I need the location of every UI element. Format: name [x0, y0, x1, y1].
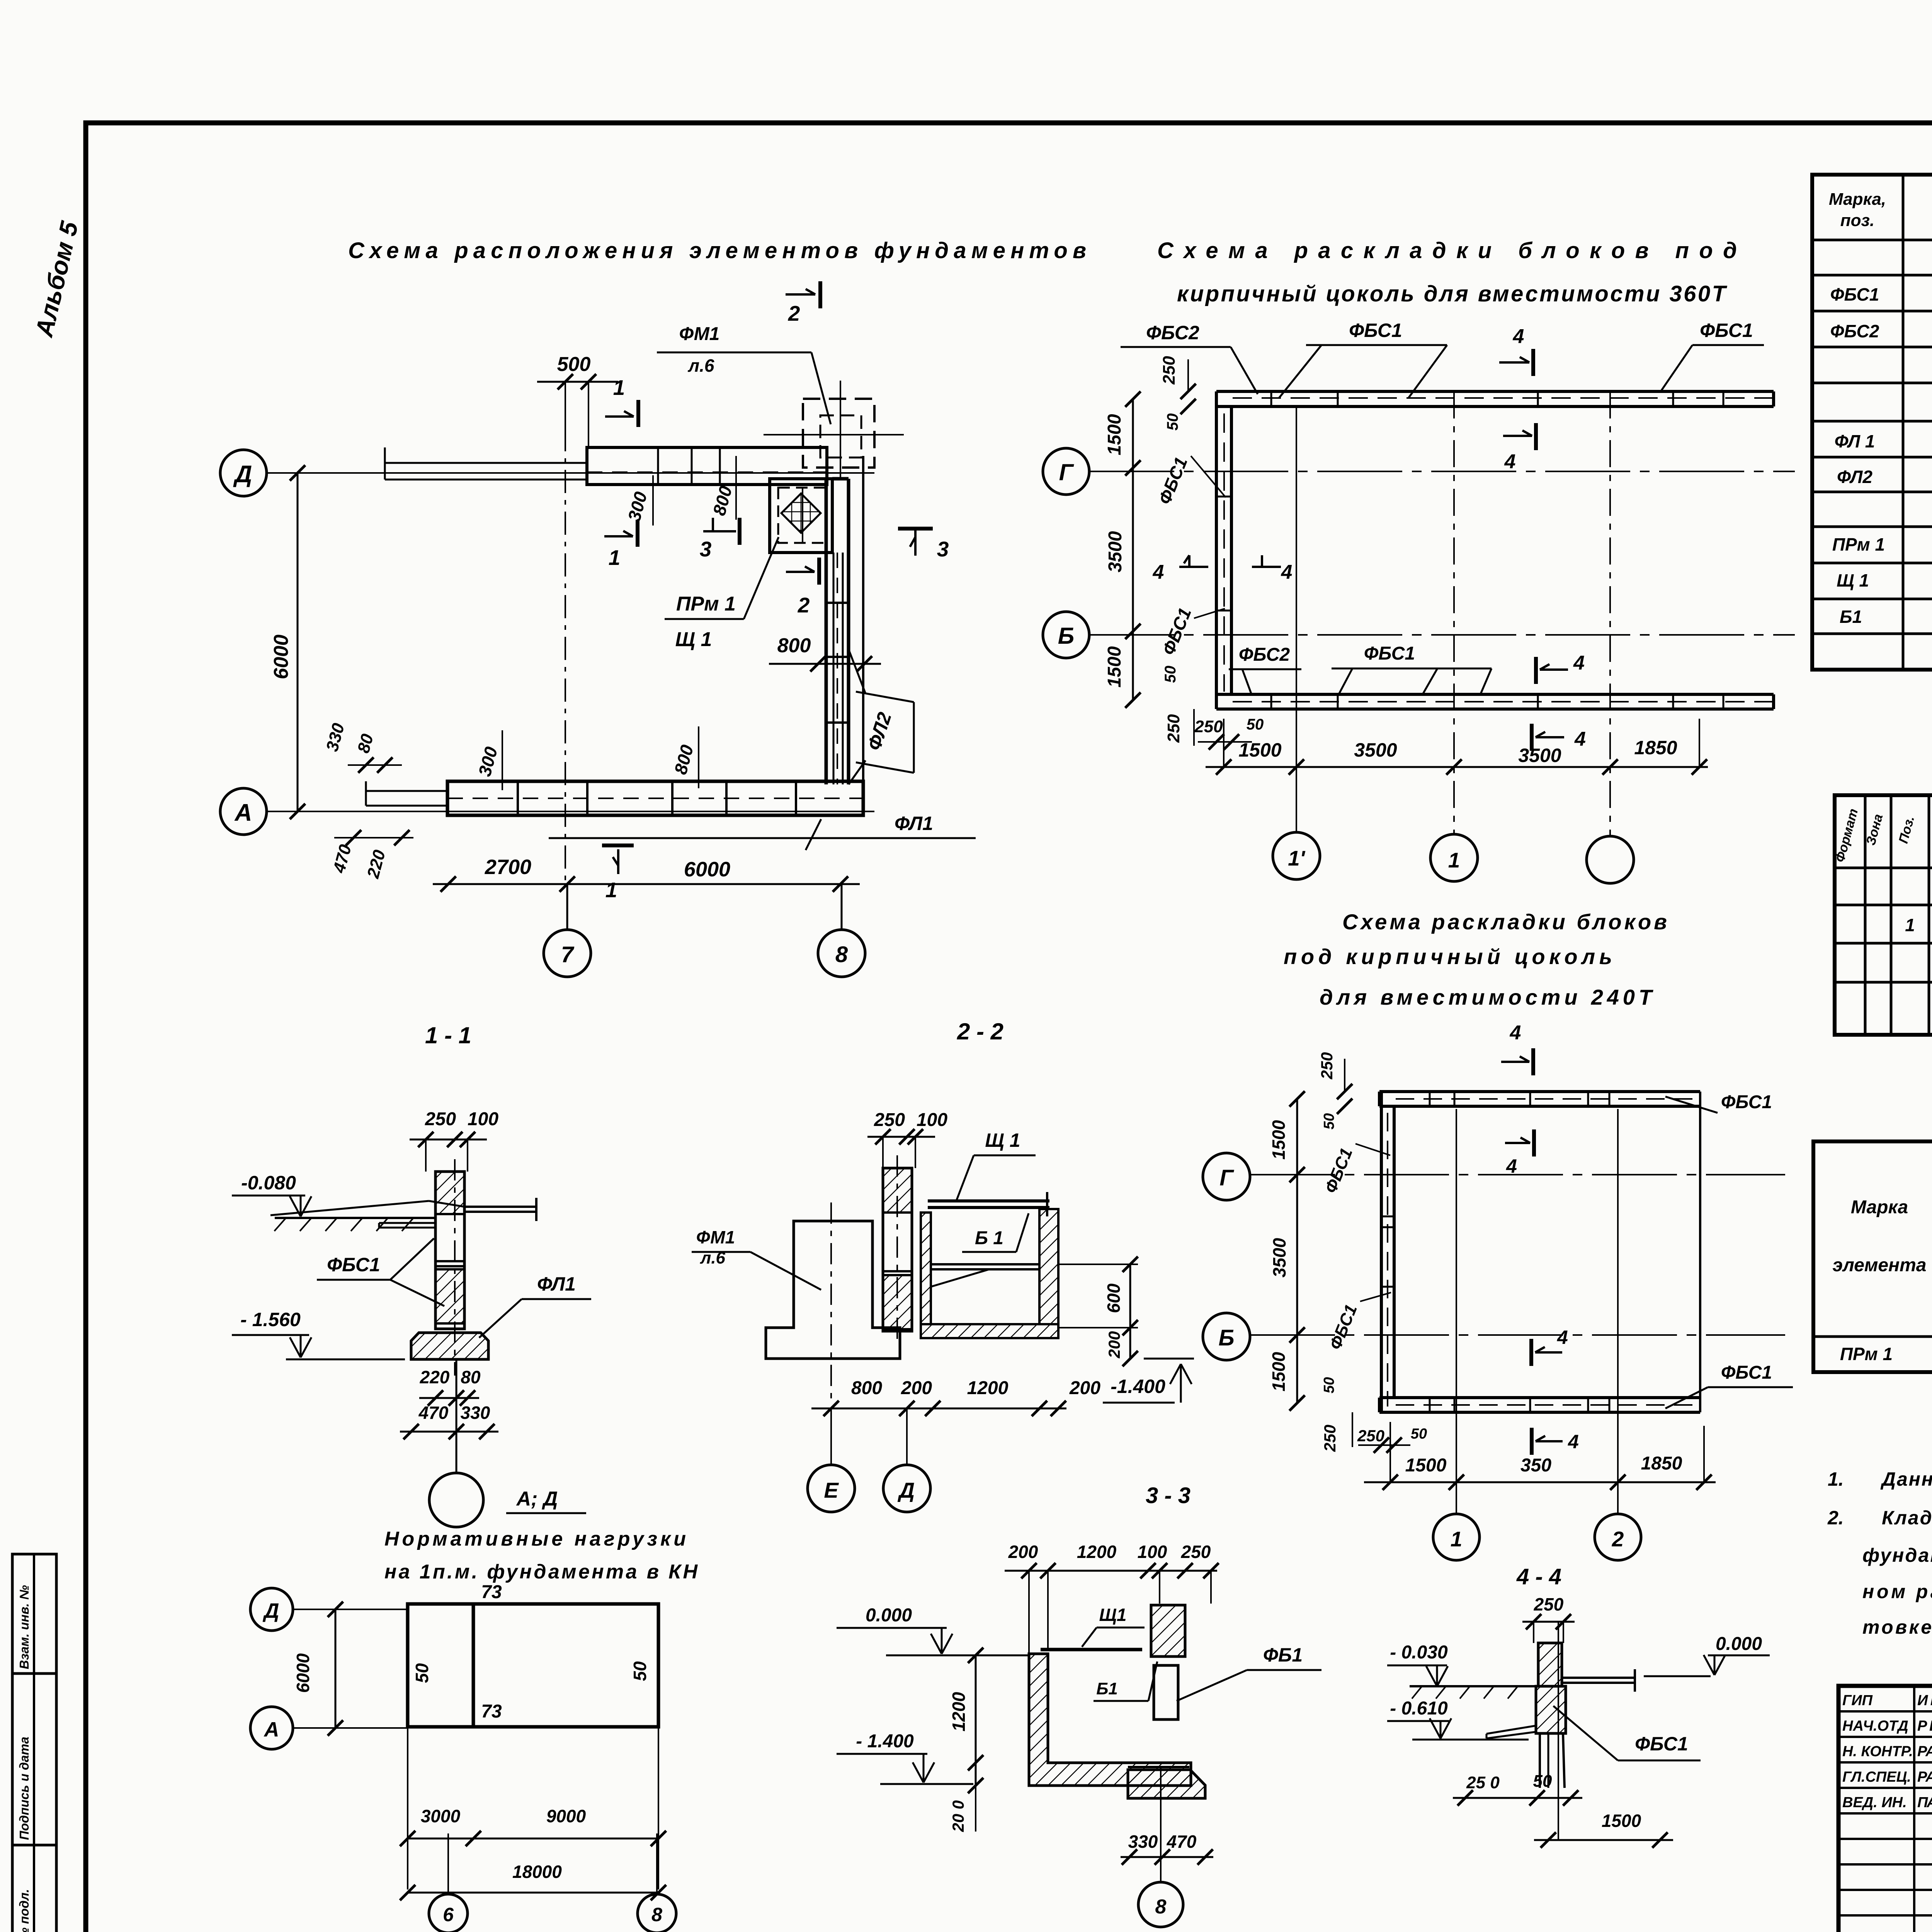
loads diagram rectangle [408, 1604, 658, 1727]
svg-text:6: 6 [443, 1904, 454, 1925]
label Щ1 (section 2-2) [957, 1129, 1036, 1200]
label ФЛ1 with leader line [549, 813, 976, 850]
240 plan top strip [1379, 1092, 1700, 1106]
svg-text:А; Д: А; Д [516, 1488, 558, 1510]
table row Щ1 [1837, 570, 1932, 593]
svg-text:200: 200 [901, 1378, 932, 1398]
svg-text:6000: 6000 [684, 858, 730, 881]
section 4-4 dim 250 [1522, 1594, 1575, 1643]
section marks 4 (inside 360 plan) [1153, 423, 1586, 751]
svg-text:Схема расположения элементов: Схема расположения элементов фундаментов [348, 238, 1086, 263]
left dimension chain (240) [1269, 1091, 1305, 1411]
svg-text:Щ1: Щ1 [1099, 1605, 1126, 1625]
svg-text:73: 73 [481, 1701, 502, 1722]
svg-text:Д: Д [898, 1478, 915, 1502]
svg-text:ном растворе марки М50 по по: ном растворе марки М50 по подго- [1862, 1581, 1932, 1602]
section 1-1 footing ФЛ1 (hatched trapezoid) [411, 1329, 488, 1359]
svg-text:Щ 1: Щ 1 [1837, 570, 1869, 590]
svg-text:50: 50 [1321, 1113, 1337, 1129]
svg-text:3500: 3500 [1105, 531, 1126, 572]
svg-text:50: 50 [412, 1663, 432, 1683]
label ФМ1 л.6 with leader [657, 324, 831, 424]
label ФБС1 rotated (left bottom, 360) [1158, 605, 1225, 658]
svg-text:НАЧ.ОТД: НАЧ.ОТД [1842, 1718, 1908, 1734]
svg-text:80: 80 [461, 1367, 481, 1387]
section 4-4 ground line [1410, 1686, 1537, 1699]
svg-text:-0.080: -0.080 [241, 1172, 296, 1194]
svg-text:1500: 1500 [1269, 1352, 1289, 1391]
centerline of axis 7 (vertical dash-dot) [565, 386, 566, 885]
section 1-1 dims 220 80 [419, 1367, 481, 1406]
label Б1 (section 2-2) [962, 1213, 1029, 1252]
section 4-4 axis line [1558, 1622, 1559, 1840]
svg-text:фундаментов производить на цем: фундаментов производить на цемент- [1862, 1544, 1932, 1566]
svg-text:4: 4 [1568, 1431, 1579, 1452]
section 3-3 plate Щ1 [1041, 1605, 1145, 1650]
section 4-4 dim 1500 [1534, 1811, 1673, 1848]
bottom dimension chain (360): 1500 3500 3500 1850 [1206, 719, 1708, 775]
svg-text:500: 500 [557, 353, 591, 376]
svg-text:3500: 3500 [1518, 745, 1561, 766]
svg-text:3500: 3500 [1354, 739, 1397, 761]
label ПРм 1 with leader [665, 537, 779, 619]
svg-text:ФБС1: ФБС1 [1349, 320, 1402, 341]
svg-text:1 - 1: 1 - 1 [425, 1022, 471, 1048]
label ФБС1 rotated (240 left bottom) [1326, 1293, 1391, 1352]
svg-text:3000: 3000 [421, 1806, 461, 1826]
svg-text:ФБС1: ФБС1 [1721, 1092, 1772, 1112]
svg-text:250: 250 [1534, 1594, 1564, 1614]
svg-text:25 0: 25 0 [1466, 1773, 1500, 1792]
dashed outline ФМ1 (monolithic insert) [764, 381, 904, 480]
label ФБС1 (top middle, 360) [1279, 320, 1447, 398]
svg-text:ФЛ1: ФЛ1 [537, 1273, 576, 1295]
left stamp column [12, 1554, 56, 1932]
svg-text:Схема раскладки блоков: Схема раскладки блоков [1342, 910, 1667, 934]
section 3-3 vertical dim 1200 [949, 1648, 983, 1770]
axis circle unnamed (360) [1587, 391, 1634, 883]
svg-text:ГИП: ГИП [1842, 1692, 1873, 1709]
svg-text:ФБС1: ФБС1 [327, 1254, 380, 1276]
svg-text:- 1.560: - 1.560 [240, 1309, 301, 1330]
label ФБС1 (4-4) [1553, 1706, 1701, 1760]
svg-text:элемента: элемента [1833, 1255, 1927, 1276]
svg-text:1: 1 [609, 546, 621, 570]
svg-text:1500: 1500 [1104, 414, 1125, 455]
svg-text:А: А [264, 1718, 279, 1741]
svg-text:Марка: Марка [1851, 1197, 1908, 1218]
svg-text:Г: Г [1059, 459, 1075, 485]
section 3-3 label Б1 [1094, 1662, 1157, 1701]
table row ФБС2 [1830, 321, 1932, 341]
svg-text:Б1: Б1 [1096, 1679, 1118, 1698]
label ФБС1 (240 bottom right) [1665, 1362, 1793, 1408]
svg-text:50: 50 [1162, 666, 1179, 683]
svg-text:4: 4 [1506, 1155, 1517, 1177]
svg-text:ГЛ.СПЕЦ.: ГЛ.СПЕЦ. [1842, 1769, 1911, 1785]
svg-text:250: 250 [1181, 1542, 1211, 1562]
svg-text:РЫБКИНА: РЫБКИНА [1917, 1718, 1932, 1734]
svg-text:7: 7 [561, 942, 575, 967]
svg-text:ФБС1: ФБС1 [1700, 320, 1753, 341]
svg-text:350: 350 [1520, 1455, 1551, 1476]
loads diagram axis circle 8 [638, 1833, 676, 1932]
svg-text:А: А [234, 799, 252, 826]
svg-text:220: 220 [420, 1367, 450, 1387]
svg-text:4 - 4: 4 - 4 [1516, 1564, 1561, 1589]
svg-text:100: 100 [917, 1110, 947, 1130]
svg-text:1500: 1500 [1104, 646, 1125, 687]
svg-text:1200: 1200 [967, 1378, 1009, 1398]
svg-text:1: 1 [1448, 848, 1460, 872]
svg-text:1: 1 [1905, 915, 1915, 935]
svg-text:- 1.400: - 1.400 [856, 1731, 914, 1752]
axis circle 8 [818, 884, 865, 977]
section mark 1 (top) [605, 376, 638, 427]
embedded items table grid [1813, 1141, 1932, 1372]
svg-text:Щ 1: Щ 1 [985, 1129, 1020, 1151]
specification header texts [1833, 807, 1932, 864]
bottom block strip (360) [1216, 694, 1774, 709]
table header texts [1829, 180, 1932, 232]
svg-text:0.000: 0.000 [1716, 1634, 1762, 1654]
title block signature grid [1838, 1686, 1932, 1932]
section 3-3 dims 330 470 [1121, 1832, 1213, 1865]
rotated dim 800 (top strip) [709, 456, 736, 520]
specification table grid [1835, 795, 1932, 1035]
axis circle А;Д (section 1-1) [429, 1359, 586, 1527]
axis circle Б (360) [1043, 612, 1089, 658]
label ФБС2 (top left, 360) [1121, 322, 1258, 394]
section 3-3 dim 200 lower [949, 1763, 983, 1832]
section mark 3 (right) [898, 529, 949, 561]
svg-text:ФБС2: ФБС2 [1239, 645, 1290, 665]
axis circle 8 (3-3) [1138, 1767, 1183, 1927]
label ФЛ1 (section 1-1) [479, 1273, 591, 1338]
section 4-4 dims 250 50 [1453, 1772, 1582, 1806]
corner pit ПРм1 (hatched square) [770, 479, 832, 553]
note 2: Кладку бетонных блоков [1827, 1507, 1932, 1638]
svg-text:Е: Е [824, 1478, 839, 1502]
spec row 1.400-15 [1905, 915, 1932, 935]
section marks 4 (inside 240 plan) [1505, 1129, 1579, 1455]
small dims 50/250 (240 bottom) [1321, 1377, 1427, 1453]
svg-text:4: 4 [1153, 561, 1164, 583]
top block strip (360) [1216, 391, 1774, 406]
svg-text:4: 4 [1504, 451, 1516, 473]
rotated dim 300 (top strip) [624, 475, 653, 526]
svg-text:50: 50 [1247, 716, 1264, 733]
section mark 1 (bottom) [602, 845, 634, 902]
label ФБС1 (section 1-1) [317, 1238, 444, 1306]
table row ФЛ1 [1835, 431, 1932, 454]
loads diagram vertical dim 6000 [293, 1602, 343, 1736]
svg-text:- 0.030: - 0.030 [1390, 1642, 1448, 1663]
table row ФБС1 [1830, 284, 1932, 304]
svg-text:Б1: Б1 [1840, 607, 1862, 627]
svg-text:Щ 1: Щ 1 [675, 628, 712, 651]
svg-text:200: 200 [1105, 1331, 1123, 1359]
svg-text:3: 3 [700, 537, 712, 561]
svg-text:2: 2 [788, 301, 800, 325]
dimension 800 (right strip) [769, 634, 881, 672]
section 1-1 dims 250 100 [410, 1109, 498, 1172]
svg-text:50: 50 [1164, 413, 1181, 431]
section 3-3 footing (hatched) [1128, 1767, 1205, 1798]
axis circle Д [220, 450, 267, 496]
section 2-2 pit top plate Щ1 [928, 1192, 1049, 1216]
svg-text:4: 4 [1574, 728, 1586, 750]
svg-text:250: 250 [1160, 356, 1179, 385]
svg-text:поз.: поз. [1840, 211, 1874, 230]
svg-text:6000: 6000 [293, 1653, 313, 1693]
svg-text:-1.400: -1.400 [1111, 1376, 1165, 1397]
svg-text:50: 50 [1411, 1426, 1427, 1442]
level mark -1.400 (3-3) [837, 1731, 973, 1784]
svg-text:1200: 1200 [949, 1692, 969, 1731]
axis circle 1 (240) [1433, 1109, 1480, 1560]
svg-text:ФБС1: ФБС1 [1830, 284, 1879, 304]
bottom foundation strip [366, 781, 863, 815]
240 plan right edge line [1699, 1092, 1701, 1412]
axis line А [267, 811, 874, 812]
signature labels [1842, 1692, 1932, 1811]
svg-text:Б: Б [1218, 1325, 1234, 1350]
section 1-1 ground line with hatching [274, 1218, 435, 1231]
svg-text:50: 50 [1321, 1377, 1337, 1393]
bottom dimension chain (240): 1500 350 1850 [1364, 1422, 1716, 1490]
small dims 330 80 (left of bottom strip) [323, 721, 402, 773]
svg-text:2: 2 [1612, 1527, 1624, 1551]
svg-text:ФМ1: ФМ1 [696, 1227, 735, 1247]
section 2-2 dims 250 100 [867, 1110, 947, 1168]
svg-text:330: 330 [461, 1403, 490, 1423]
svg-text:1850: 1850 [1634, 737, 1677, 759]
section 2-2 pit walls and bottom (hatched) [921, 1209, 1058, 1338]
svg-text:20 0: 20 0 [949, 1800, 967, 1832]
svg-text:Д: Д [233, 461, 252, 488]
rotated dim 800 (bottom strip) [670, 726, 699, 788]
axis line Б (360) [1089, 634, 1795, 636]
svg-text:Марка,: Марка, [1829, 190, 1886, 209]
label ФБС2 (bottom, 360) [1229, 645, 1301, 696]
svg-text:Инв. № подл.: Инв. № подл. [17, 1889, 31, 1932]
svg-text:РАШЕВСКИЙ: РАШЕВСКИЙ [1917, 1768, 1932, 1785]
section 1-1 floor slab right [270, 1198, 536, 1221]
svg-text:250: 250 [425, 1109, 456, 1129]
axis circle Г (240) [1203, 1153, 1785, 1200]
svg-text:250: 250 [1164, 714, 1183, 743]
svg-text:73: 73 [481, 1582, 502, 1602]
svg-text:Г: Г [1219, 1165, 1234, 1190]
svg-text:ФМ1: ФМ1 [679, 324, 720, 344]
svg-text:ФЛ1: ФЛ1 [895, 813, 933, 834]
axis circle 2 (240) [1595, 1109, 1641, 1560]
svg-text:6000: 6000 [270, 634, 293, 679]
label ФЛ2 rotated with leader [849, 649, 914, 784]
section 3-3 L-shaped wall (hatched) [1029, 1654, 1191, 1786]
svg-text:Б: Б [1058, 623, 1074, 649]
svg-text:1500: 1500 [1269, 1120, 1289, 1160]
svg-text:Данные о грунтовых условиях см: Данные о грунтовых условиях см. лист 2 [1880, 1468, 1932, 1490]
section 4-4 wall (hatched) [1536, 1643, 1566, 1788]
svg-text:200: 200 [1069, 1378, 1100, 1398]
svg-text:50: 50 [1533, 1772, 1552, 1791]
svg-text:2700: 2700 [485, 855, 531, 879]
svg-text:ФЛ 1: ФЛ 1 [1835, 431, 1875, 451]
loads diagram values 73 / 50 [412, 1582, 650, 1722]
svg-text:- 0.610: - 0.610 [1390, 1698, 1448, 1719]
svg-text:18000: 18000 [512, 1862, 562, 1882]
loads diagram dim 3000 9000 [400, 1727, 666, 1889]
svg-text:250: 250 [1357, 1427, 1384, 1445]
loads diagram axis circle Д [250, 1588, 408, 1631]
rotated dim 300 (bottom strip) [474, 730, 502, 790]
vertical dimension 6000 between Д and А [270, 465, 305, 819]
svg-text:ПРм 1: ПРм 1 [1840, 1344, 1893, 1364]
axis line Г (360) [1089, 471, 1795, 472]
svg-text:8: 8 [835, 942, 848, 967]
svg-text:ФБС2: ФБС2 [1830, 321, 1879, 341]
svg-text:100: 100 [1138, 1542, 1167, 1562]
level mark -0.030 (4-4) [1387, 1642, 1448, 1686]
loads diagram dim 18000 [400, 1862, 666, 1900]
axis circle Д (section 2-2) [883, 1408, 930, 1512]
small dims 470 220 (below left end) [330, 830, 413, 881]
section 2-2 bottom dims 800 200 1200 200 [811, 1378, 1100, 1416]
svg-text:1.: 1. [1828, 1468, 1844, 1490]
embedded items row ПРм1 [1840, 1343, 1932, 1366]
svg-text:1500: 1500 [1602, 1811, 1641, 1831]
top-right table: blocks specification grid [1812, 175, 1932, 670]
240 plan bottom strip [1379, 1398, 1700, 1412]
svg-text:ФБ1: ФБ1 [1263, 1644, 1303, 1666]
title: Нормативные нагрузки на 1п.м. фундамента в КН [384, 1528, 698, 1583]
svg-text:РАШЕВСКИЙ: РАШЕВСКИЙ [1917, 1742, 1932, 1760]
svg-text:330: 330 [1128, 1832, 1158, 1852]
section mark 2 (top right) [786, 281, 820, 325]
svg-text:600: 600 [1104, 1283, 1124, 1313]
svg-text:ФБС1: ФБС1 [1364, 643, 1415, 664]
level mark -1.400 (section 2-2) [1103, 1359, 1194, 1403]
section mark 4 top (240) [1501, 1022, 1533, 1075]
label ФБС1 rotated (240 left top) [1321, 1144, 1390, 1196]
svg-text:3: 3 [937, 537, 949, 561]
svg-text:л.6: л.6 [688, 355, 714, 376]
small dims 250/50 (top left, 360) [1160, 356, 1196, 430]
label ФБС1 (top right, 360) [1662, 320, 1764, 390]
svg-text:ФБС1: ФБС1 [1721, 1362, 1772, 1383]
svg-text:2.: 2. [1827, 1507, 1844, 1529]
small dims 250/50 (240 top) [1318, 1052, 1352, 1129]
svg-text:товке из песка толщиной 100: товке из песка толщиной 100 мм [1862, 1616, 1932, 1638]
svg-text:ФБС2: ФБС2 [1146, 322, 1199, 344]
svg-text:ВЕД. ИН.: ВЕД. ИН. [1842, 1794, 1907, 1811]
label ФБС1 (240 top right) [1665, 1092, 1772, 1113]
svg-text:2: 2 [798, 593, 810, 617]
right foundation strip (vertical) [826, 456, 863, 815]
svg-text:1500: 1500 [1238, 739, 1281, 761]
svg-text:8: 8 [1155, 1896, 1167, 1918]
svg-text:ПАНКРАТОВА: ПАНКРАТОВА [1917, 1794, 1932, 1811]
svg-text:8: 8 [651, 1904, 662, 1925]
svg-text:ФБС1: ФБС1 [1635, 1733, 1688, 1755]
section mark 1 (middle) [604, 520, 638, 570]
dimension 500 at top of plan [537, 353, 618, 447]
svg-text:ПРм 1: ПРм 1 [1832, 534, 1885, 554]
svg-text:Взам. инв. №: Взам. инв. № [17, 1585, 31, 1669]
section mark 2 (lower) [786, 558, 819, 617]
svg-text:470: 470 [1167, 1832, 1197, 1852]
axis circle Г (360) [1043, 448, 1089, 495]
left dimension chain (360): 1500 3500 1500 [1104, 391, 1141, 708]
axis circle 1 (360) [1430, 391, 1478, 881]
label ФБ1 (3-3) [1177, 1644, 1321, 1701]
title block outline [1838, 1686, 1932, 1932]
svg-text:800: 800 [851, 1378, 882, 1398]
svg-text:4: 4 [1281, 561, 1293, 583]
label ФБС1 rotated (left top, 360) [1154, 454, 1226, 507]
embedded items table texts [1833, 1151, 1932, 1333]
section 2-2 pier of blocks (hatched) [883, 1155, 912, 1341]
svg-text:Н. КОНТР.: Н. КОНТР. [1842, 1743, 1913, 1760]
svg-text:250: 250 [874, 1110, 905, 1130]
svg-text:250: 250 [1318, 1052, 1336, 1080]
svg-text:ПРм 1: ПРм 1 [676, 593, 736, 615]
svg-text:1200: 1200 [1077, 1542, 1117, 1562]
axis circle Б (240) [1203, 1313, 1785, 1360]
loads diagram axis circle А [250, 1707, 408, 1749]
axis circle 7 [544, 884, 591, 977]
svg-text:Подпись и дата: Подпись и дата [17, 1737, 31, 1840]
level mark -1.560 [232, 1309, 405, 1359]
svg-text:1: 1 [1451, 1527, 1463, 1551]
section 3-3 top dims 200 1200 100 250 [1005, 1542, 1219, 1654]
left block strip (360) [1216, 391, 1231, 709]
bottom dimension line 2700 / 6000 [433, 855, 860, 892]
section 1-1 dims 470 330 [400, 1403, 498, 1439]
label ФБС1 (bottom, 360) [1332, 643, 1492, 696]
section 2-2 foundation ФМ1 outline [766, 1202, 900, 1403]
section mark 4 (top, 360) [1499, 325, 1533, 376]
svg-text:4: 4 [1510, 1022, 1521, 1044]
section 2-2 vertical dim 600/200 [1058, 1257, 1138, 1366]
svg-text:1: 1 [613, 376, 625, 400]
top foundation strip (wall blocks) [385, 447, 827, 485]
small dims 50/250 (bottom left, 360) [1162, 666, 1264, 750]
axis circle 1-prime (360) [1273, 406, 1320, 879]
svg-text:Д: Д [263, 1599, 279, 1622]
svg-text:4: 4 [1573, 652, 1585, 674]
level mark -0.080 [232, 1172, 311, 1216]
svg-text:100: 100 [468, 1109, 498, 1129]
section 4-4 floor slabs [1486, 1669, 1635, 1738]
240 plan left strip [1381, 1092, 1394, 1412]
svg-text:4: 4 [1557, 1327, 1568, 1348]
label ФМ1 л.6 (section 2-2) [692, 1227, 821, 1290]
loads diagram axis circle 6 [429, 1833, 468, 1932]
section 1-1 wall of ФБС1 blocks [435, 1159, 464, 1376]
axis circle Е (section 2-2) [808, 1408, 855, 1512]
svg-text:470: 470 [418, 1403, 449, 1423]
level mark 0.000 (3-3) [837, 1605, 1028, 1655]
svg-text:250: 250 [1321, 1425, 1339, 1452]
svg-text:1': 1' [1288, 846, 1306, 870]
svg-text:3 - 3: 3 - 3 [1146, 1483, 1190, 1508]
svg-text:3500: 3500 [1269, 1238, 1289, 1277]
svg-text:ФЛ2: ФЛ2 [1837, 467, 1872, 487]
svg-text:200: 200 [1008, 1542, 1038, 1562]
